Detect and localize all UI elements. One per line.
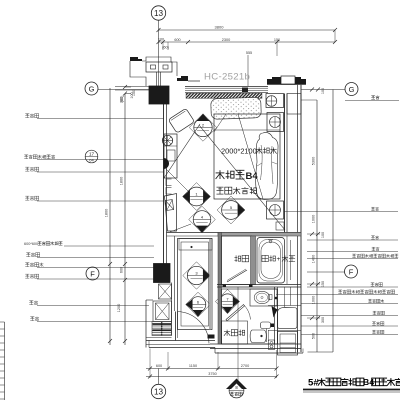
bottom dim row2: [146, 376, 277, 378]
grid bubble G right: [345, 83, 358, 96]
right dim ticks g: [310, 88, 314, 92]
right label 10: [301, 334, 398, 336]
top right wall black right: [295, 77, 306, 84]
top right wall window box: [281, 76, 295, 84]
shower room walls: [222, 236, 252, 285]
grid bubble G left: [85, 82, 98, 95]
junction box stem: [156, 72, 158, 86]
junction dot right: [275, 297, 278, 300]
right label entry top: [345, 100, 399, 102]
nightstand N1: [266, 94, 284, 108]
elevation mark bottom: [226, 379, 247, 390]
left lower frame: [146, 299, 153, 301]
corner switch box: [276, 222, 284, 230]
vanity basin: [254, 291, 270, 303]
entry bottom wall left: [146, 337, 172, 339]
text room name B4: [216, 170, 225, 179]
axis line 13 vertical bottom: [158, 369, 160, 385]
label mumen: [37, 305, 149, 307]
right label 9: [301, 325, 398, 327]
toilet room door leaf: [226, 305, 245, 322]
dim 100 left of column: [115, 86, 149, 88]
svg-text:300: 300: [120, 97, 124, 103]
right dim ticks 317: [310, 316, 314, 320]
svg-text:500: 500: [312, 333, 316, 339]
bed pillow line: [214, 129, 280, 131]
bathtub faucet: [269, 240, 272, 243]
top right wall black left: [267, 77, 281, 84]
svg-text:600: 600: [174, 38, 180, 42]
desk: [164, 134, 177, 178]
svg-text:100: 100: [158, 38, 164, 42]
svg-text:17: 17: [89, 152, 95, 157]
closet top edge: [167, 232, 302, 234]
entry door arc: [178, 312, 210, 344]
svg-text:600: 600: [120, 267, 124, 273]
nightstand N3: [267, 201, 284, 219]
bathroom top wall fill: [218, 233, 301, 237]
floor lamp: [162, 135, 172, 145]
right dim vline outer: [332, 90, 334, 353]
divider wall: [251, 236, 256, 285]
svg-text:600*600: 600*600: [24, 242, 38, 246]
entry bottom wall right: [210, 343, 301, 345]
title underline: [303, 389, 400, 391]
bottom dim row1: [146, 368, 277, 370]
bath left wall: [218, 233, 222, 345]
elevation mark E closet: [187, 266, 205, 284]
cabinet right lower: [278, 332, 298, 356]
grid bubble 13 bottom: [151, 384, 165, 398]
towel niche lines: [286, 236, 288, 284]
svg-text:2700: 2700: [241, 364, 249, 368]
bed headboard dots: [211, 97, 262, 119]
shower door: [227, 270, 247, 282]
right label 6: [276, 294, 398, 296]
svg-text:150: 150: [274, 38, 280, 42]
bath mid wall: [217, 284, 301, 286]
dim line 2300 row: [159, 41, 336, 43]
label bizhishimian: [37, 267, 154, 269]
svg-text:F: F: [90, 269, 95, 278]
right label 7: [301, 303, 398, 305]
elevation mark D bed: [222, 201, 241, 220]
wall step outline 2: [171, 62, 177, 76]
right label 8: [301, 315, 398, 317]
toilet text box: [222, 321, 248, 344]
left dim vline inner: [124, 94, 126, 346]
ext line x277: [276, 42, 278, 56]
toilet tank: [261, 322, 271, 329]
svg-text:1200: 1200: [117, 304, 121, 312]
wardrobe shelf top: [179, 239, 212, 251]
vanity counter: [250, 289, 277, 306]
axis line F right: [307, 271, 345, 273]
right label 1: [284, 211, 398, 213]
svg-text:+: +: [277, 256, 281, 263]
tv cabinet: [165, 194, 177, 232]
bed blanket fold: [238, 114, 263, 199]
shower text: [234, 255, 240, 261]
right label 4: [307, 258, 398, 260]
svg-text:HC-2521b: HC-2521b: [204, 72, 250, 83]
svg-text:600: 600: [156, 364, 162, 368]
bathtub text: [262, 255, 268, 261]
label rujiaoqi: [37, 171, 164, 173]
column C1 concrete: [149, 86, 169, 104]
right label 3: [307, 251, 398, 253]
right dim vline inner: [316, 100, 318, 352]
ext line x238 toilet: [237, 287, 239, 382]
window sill lines: [185, 86, 268, 88]
label LED light: [64, 245, 154, 247]
label tijiaoxian 1: [37, 118, 164, 120]
elevation mark A mid: [187, 187, 206, 206]
svg-text:B4: B4: [246, 171, 259, 182]
bed outline: [214, 114, 280, 199]
axis line 13 vertical top: [158, 20, 160, 86]
bathtub basin: [261, 242, 281, 279]
toilet rail: [266, 329, 268, 343]
tv set: [165, 200, 173, 211]
label tijiaoxian 2: [37, 278, 154, 280]
grid bubble F left: [86, 267, 99, 280]
elevation mark F corridor: [190, 297, 206, 313]
column C2 concrete: [154, 264, 171, 283]
svg-text:1150: 1150: [189, 364, 197, 368]
wall sconce black: [164, 158, 170, 169]
grid bubble F right: [345, 265, 358, 278]
wardrobe outer: [178, 239, 213, 330]
svg-text:04: 04: [89, 158, 94, 163]
bathtub outer: [257, 238, 285, 284]
svg-text:1000: 1000: [312, 296, 316, 304]
svg-text:2000*2100: 2000*2100: [221, 147, 257, 156]
svg-text:555: 555: [246, 51, 252, 55]
duct shaft top right: [287, 94, 301, 115]
svg-text:G: G: [89, 84, 95, 93]
dim line 3800: [159, 29, 336, 31]
legend table edge: [4, 322, 6, 400]
right dim ticks 232: [310, 232, 314, 236]
right dim ticks 283: [310, 282, 314, 286]
axis ext right 3800: [334, 30, 336, 42]
bed figure robe: [256, 133, 278, 200]
svg-text:150: 150: [321, 281, 325, 287]
svg-text:100: 100: [132, 90, 136, 96]
elevation mark C top: [194, 118, 212, 136]
luggage x-box: [159, 284, 172, 299]
grid bubble 13 top: [151, 6, 165, 20]
toilet room box: [222, 289, 278, 344]
keynote circle 17: [85, 150, 98, 163]
left dim ticks mid: [108, 262, 112, 266]
svg-text:(60): (60): [162, 46, 169, 50]
elevation mark B low: [193, 211, 211, 229]
toilet room text: [224, 330, 230, 336]
svg-text:F: F: [349, 267, 354, 276]
room diagonal 1: [164, 124, 200, 178]
label chuanglianhe: [37, 200, 164, 202]
toilet bowl: [250, 330, 266, 343]
wall step outline: [130, 61, 146, 86]
svg-text:G: G: [349, 85, 355, 94]
chair right lower: [278, 307, 298, 328]
toilet room door arc: [244, 305, 251, 320]
axis line G left: [98, 89, 149, 91]
room diagonal 4: [170, 224, 191, 232]
luggage rack frame: [153, 301, 172, 322]
svg-text:2300: 2300: [222, 38, 230, 42]
curtain hatch band: [186, 93, 262, 98]
axis line G right: [302, 89, 346, 91]
top right wall base line: [267, 84, 306, 86]
bedroom right wall: [284, 94, 286, 233]
svg-text:13: 13: [154, 9, 164, 18]
armchair: [168, 108, 194, 133]
right label 2: [307, 239, 398, 241]
junction box: [146, 62, 172, 72]
left dim vline outer: [109, 88, 111, 345]
elevation mark G bath: [220, 294, 235, 309]
right dim bottom line: [308, 351, 334, 353]
svg-text:100: 100: [321, 232, 325, 238]
svg-text:1000: 1000: [312, 215, 316, 223]
bottom ext lines: [149, 349, 151, 379]
bedroom left wall: [163, 104, 165, 264]
text flooring: [216, 187, 223, 194]
svg-text:300: 300: [321, 317, 325, 323]
room diagonal 2: [199, 125, 285, 230]
desk C marks: [166, 179, 172, 186]
label qiangzhi yingbao: [37, 159, 164, 161]
wall step black 2: [177, 76, 188, 81]
svg-text:1800: 1800: [120, 177, 124, 185]
svg-text:100: 100: [321, 88, 325, 94]
exterior wall right: [297, 85, 299, 353]
bathtub inner rim: [259, 240, 283, 282]
svg-text:3750: 3750: [208, 372, 216, 376]
label qiangzhi: [37, 321, 152, 323]
label shigaoban: [37, 257, 154, 259]
svg-text:1400: 1400: [312, 255, 316, 263]
nightstand N2: [267, 113, 284, 132]
svg-text:5300: 5300: [312, 157, 316, 165]
wall step black L: [130, 57, 142, 61]
basin diamond black: [272, 306, 278, 318]
right label 5: [307, 286, 398, 288]
svg-text:3800: 3800: [215, 25, 225, 30]
wardrobe inner: [181, 242, 209, 326]
toilet room right wall: [274, 287, 276, 344]
entry door leaf: [175, 312, 177, 341]
ext line from wall y100: [301, 99, 317, 101]
entry door jamb black: [208, 335, 215, 339]
svg-text:13: 13: [154, 387, 164, 396]
tp holder: [269, 340, 275, 350]
right lower walls: [284, 287, 286, 307]
room diagonal 3: [166, 169, 190, 193]
svg-text:1800: 1800: [105, 209, 109, 217]
svg-text:5#: 5#: [308, 378, 319, 389]
shelf slats: [152, 322, 172, 336]
dim tick marks 60: [162, 42, 164, 50]
left dim top ticks: [125, 86, 131, 88]
